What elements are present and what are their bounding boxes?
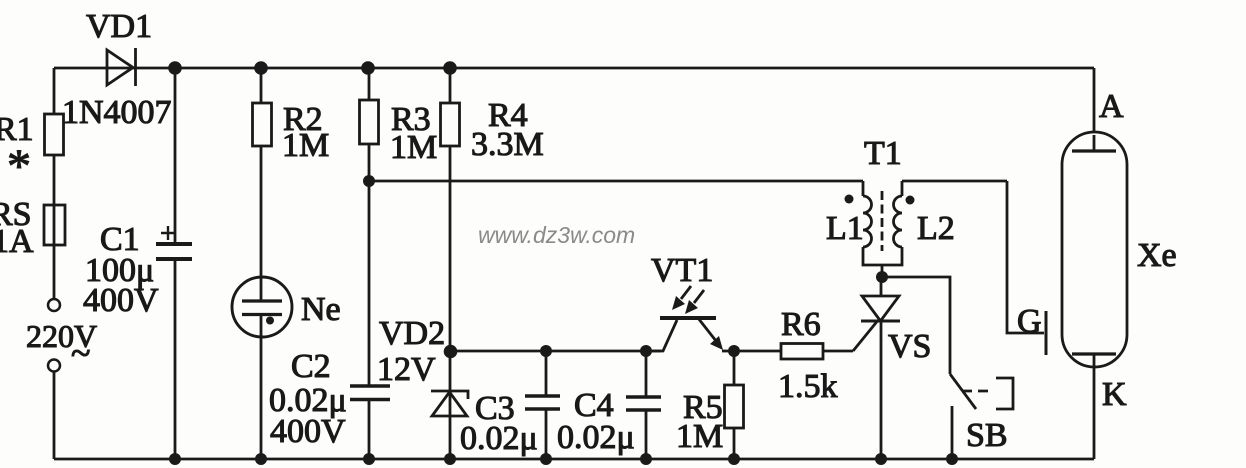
- svg-text:400V: 400V: [83, 282, 159, 319]
- node R3 bottom junction: [363, 175, 375, 187]
- wire L2 to gate lead: [902, 180, 1007, 183]
- svg-text:L1: L1: [826, 210, 864, 247]
- wire RS to terminal: [53, 245, 56, 299]
- svg-text:1M: 1M: [282, 127, 329, 164]
- xenon flash tube Xe: [1062, 88, 1177, 459]
- wire bottom rail: [54, 458, 1094, 461]
- resistor R4: [441, 68, 544, 351]
- svg-text:A: A: [1099, 88, 1124, 125]
- thyristor VS: [861, 278, 931, 459]
- svg-text:VD1: VD1: [86, 8, 152, 45]
- svg-text:R6: R6: [781, 306, 821, 343]
- transformer T1: [826, 135, 955, 272]
- svg-text:SB: SB: [966, 417, 1008, 454]
- wire top rail: [54, 67, 1094, 70]
- svg-text:1A: 1A: [0, 223, 34, 260]
- resistor R5: [676, 351, 744, 459]
- node transformer bottom junction: [876, 271, 888, 283]
- svg-text:VD2: VD2: [379, 315, 445, 352]
- svg-text:Xe: Xe: [1137, 237, 1177, 274]
- svg-text:1N4007: 1N4007: [62, 94, 172, 131]
- node bottom VD2: [444, 453, 456, 465]
- wire anode drop: [1093, 68, 1096, 151]
- winding L1: [862, 181, 865, 196]
- resistor R1: [0, 111, 64, 193]
- svg-text:Ne: Ne: [301, 291, 341, 328]
- svg-text:K: K: [1102, 376, 1127, 413]
- wire middle rail to transformer: [369, 180, 863, 183]
- resistor R6: [734, 306, 853, 405]
- svg-text:*: *: [7, 140, 31, 193]
- wire low rail: [450, 350, 661, 353]
- node bottom C1: [169, 453, 181, 465]
- node top R4: [443, 61, 457, 75]
- capacitor C2: [269, 181, 390, 459]
- svg-text:0.02μ: 0.02μ: [557, 419, 635, 456]
- svg-text:0.02μ: 0.02μ: [460, 420, 538, 457]
- wire R1 to RS: [53, 155, 56, 205]
- phototransistor VT1: [646, 252, 736, 351]
- svg-text:1.5k: 1.5k: [778, 368, 838, 405]
- wire terminal to bottom rail: [53, 371, 56, 459]
- zener diode VD2: [377, 315, 468, 459]
- trigger electrode G: [1017, 303, 1046, 355]
- node VD2 junction: [444, 345, 458, 359]
- terminal lower 220V: [48, 360, 60, 372]
- polarity dot L1: [845, 195, 854, 204]
- wire left column top: [53, 68, 56, 114]
- node top C4: [640, 345, 652, 357]
- node top C3: [540, 345, 552, 357]
- svg-text:G: G: [1017, 303, 1042, 340]
- neon lamp Ne: [232, 146, 341, 337]
- svg-text:1M: 1M: [676, 418, 723, 455]
- transformer bottom yoke: [863, 247, 902, 265]
- svg-text:L2: L2: [917, 210, 955, 247]
- svg-text:1M: 1M: [390, 129, 437, 166]
- capacitor C1: [83, 68, 192, 459]
- wire VS junction to SB: [882, 277, 950, 374]
- svg-text:12V: 12V: [377, 351, 436, 388]
- diode VD1: [62, 8, 172, 131]
- svg-text:400V: 400V: [270, 413, 346, 450]
- polarity dot L2: [906, 196, 915, 205]
- core T1: [881, 191, 884, 251]
- wire gate of VS: [853, 322, 877, 352]
- svg-text:www.dz3w.com: www.dz3w.com: [478, 222, 635, 248]
- capacitor C3: [460, 351, 560, 459]
- node bottom SB: [946, 453, 958, 465]
- wire Ne to bottom rail: [260, 337, 263, 459]
- node bottom C4: [640, 453, 652, 465]
- resistor R2: [253, 68, 330, 164]
- capacitor C4: [557, 351, 661, 459]
- node top R2: [254, 61, 268, 75]
- fuse RS: [0, 196, 65, 260]
- label 220V: [26, 318, 97, 373]
- node top C1: [168, 61, 182, 75]
- resistor R3: [360, 68, 438, 181]
- svg-text:C2: C2: [291, 348, 331, 385]
- switch SB: [950, 374, 1013, 459]
- svg-text:~: ~: [71, 333, 90, 373]
- node bottom VS: [875, 453, 887, 465]
- svg-text:3.3M: 3.3M: [471, 126, 544, 163]
- winding L2: [894, 196, 903, 247]
- node VT1 emitter junction: [728, 345, 740, 357]
- node bottom Ne: [255, 453, 267, 465]
- node bottom C2: [363, 453, 375, 465]
- wire trigger drop: [1007, 181, 1044, 333]
- terminal upper 220V: [48, 299, 60, 311]
- svg-text:T1: T1: [864, 135, 902, 172]
- node bottom R5: [728, 453, 740, 465]
- node bottom C3: [540, 453, 552, 465]
- svg-text:VT1: VT1: [651, 252, 713, 289]
- node top R3: [361, 61, 375, 75]
- svg-text:VS: VS: [888, 328, 931, 365]
